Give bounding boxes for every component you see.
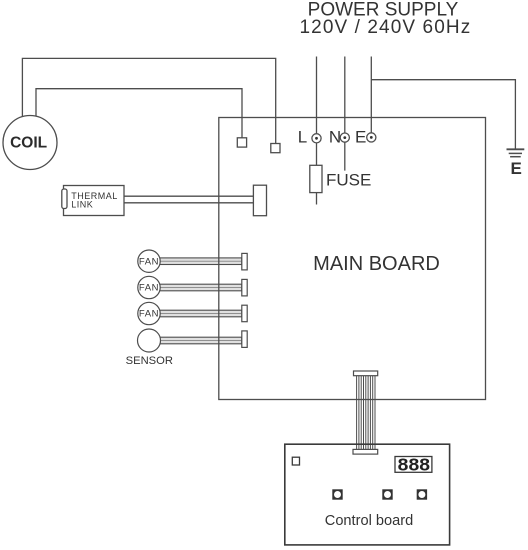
svg-text:COIL: COIL xyxy=(10,134,47,151)
fan 2 xyxy=(138,276,160,298)
fan 3 wire bundle xyxy=(158,310,242,317)
control board outline xyxy=(285,444,450,545)
svg-text:FAN: FAN xyxy=(139,256,159,267)
svg-text:E: E xyxy=(511,159,522,178)
svg-text:FAN: FAN xyxy=(139,309,159,320)
thermal link wires xyxy=(124,196,253,203)
wire: E branch to earth ground xyxy=(371,80,515,150)
fan 1 connector xyxy=(242,253,247,270)
svg-text:888: 888 xyxy=(398,455,431,475)
svg-text:E: E xyxy=(355,128,366,147)
control board mounting square xyxy=(292,457,299,465)
sensor xyxy=(138,329,161,352)
ribbon cable body xyxy=(357,376,375,450)
terminal L xyxy=(312,134,321,143)
terminal E xyxy=(367,133,376,142)
ribbon cable bottom cap xyxy=(353,449,378,454)
thermal link board connector xyxy=(253,185,266,216)
button 2 xyxy=(382,489,392,499)
wire: E line from power supply xyxy=(370,57,372,138)
fan 1 xyxy=(138,250,160,272)
sensor connector xyxy=(242,331,247,348)
earth ground symbol xyxy=(507,149,525,156)
fan 3 xyxy=(138,302,160,324)
board terminal square (outer coil lead) xyxy=(271,144,280,153)
button 3 xyxy=(417,489,427,499)
button 1 xyxy=(332,489,342,499)
ribbon cable top cap xyxy=(354,371,378,376)
wire: coil inner lead to board terminal xyxy=(36,89,242,138)
fan 2 wire bundle xyxy=(158,284,242,291)
display 888 xyxy=(395,457,432,473)
sensor wire bundle xyxy=(158,337,242,344)
fan 1 wire bundle xyxy=(158,258,242,265)
thermal link end tab xyxy=(62,189,67,209)
svg-text:Control board: Control board xyxy=(325,513,413,529)
wire: N line from power supply xyxy=(344,57,346,171)
fuse F1 xyxy=(310,165,322,192)
svg-text:FUSE: FUSE xyxy=(326,170,371,189)
svg-text:FAN: FAN xyxy=(139,283,159,294)
board terminal square (inner coil lead) xyxy=(237,138,246,147)
svg-text:N: N xyxy=(329,128,341,147)
main board outline xyxy=(219,118,486,400)
svg-text:120V / 240V 60Hz: 120V / 240V 60Hz xyxy=(299,17,471,38)
svg-text:LINK: LINK xyxy=(71,200,93,210)
wire: coil outer lead to board terminal xyxy=(22,58,275,143)
wire: L line from power supply down through fuse xyxy=(316,57,318,205)
thermal link body xyxy=(64,186,125,216)
fan 2 connector xyxy=(242,279,247,296)
svg-text:SENSOR: SENSOR xyxy=(126,355,173,367)
fan 3 connector xyxy=(242,305,247,322)
svg-text:L: L xyxy=(298,128,307,147)
svg-text:MAIN BOARD: MAIN BOARD xyxy=(313,253,440,275)
terminal N xyxy=(340,133,349,142)
coil CIRCLE xyxy=(3,116,57,170)
